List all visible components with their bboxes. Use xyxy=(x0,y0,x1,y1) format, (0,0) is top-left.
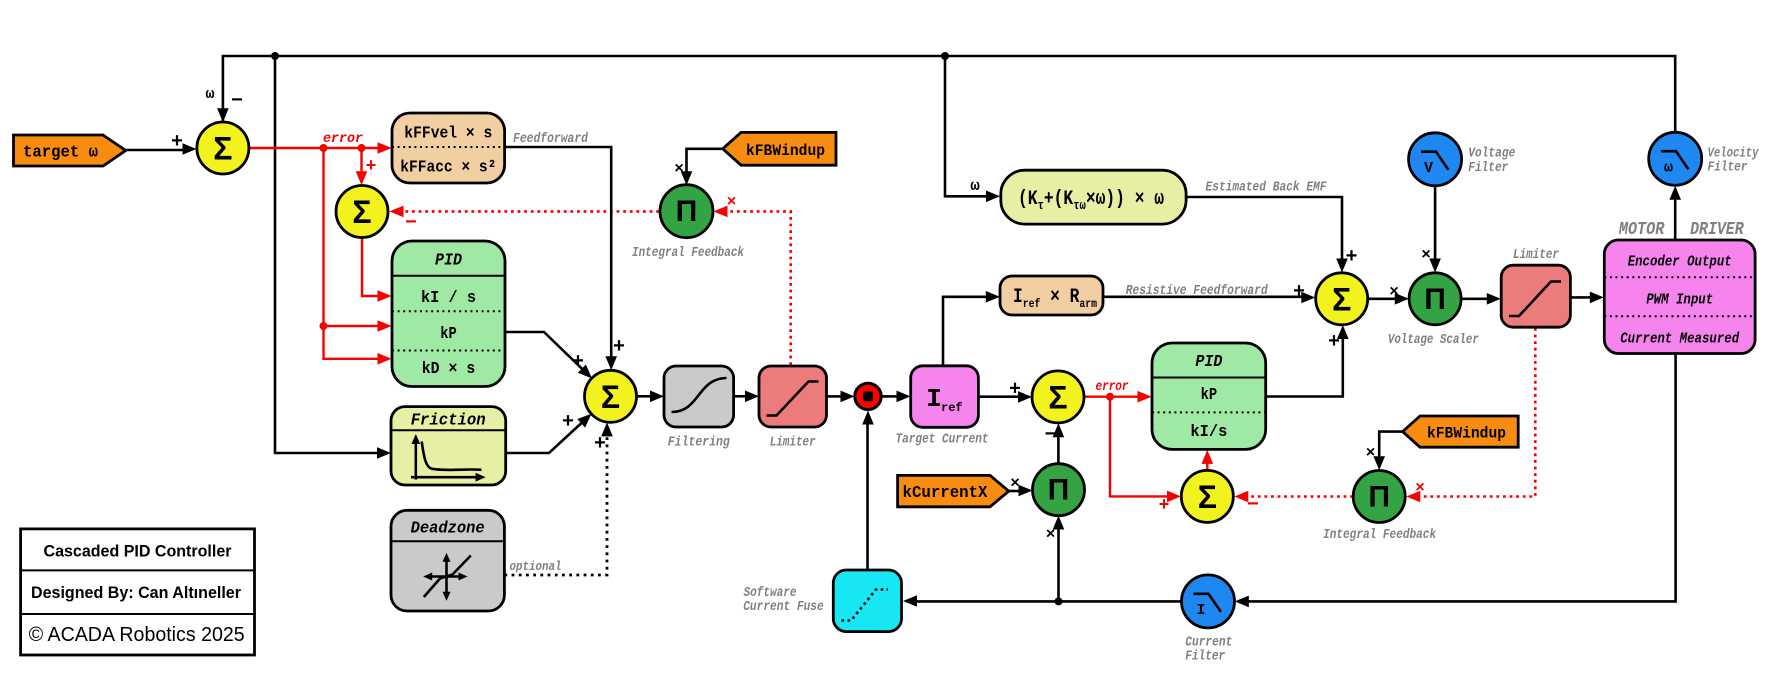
wire kFBWindup to P1 xyxy=(687,149,723,172)
svg-text:Σ: Σ xyxy=(1198,479,1217,515)
svg-text:kFBWindup: kFBWindup xyxy=(1427,425,1506,443)
svg-text:Limiter: Limiter xyxy=(770,436,816,451)
icon friction curve xyxy=(411,437,480,480)
block filtering xyxy=(664,366,734,427)
svg-text:Π: Π xyxy=(676,195,698,228)
wire node to Iref block xyxy=(881,395,897,398)
svg-text:PID: PID xyxy=(1195,353,1222,372)
filter velocity xyxy=(1649,132,1702,185)
block friction xyxy=(391,407,506,485)
wire filtering to limiter xyxy=(734,395,746,398)
svg-text:+: + xyxy=(1328,331,1340,354)
svg-text:I: I xyxy=(926,384,942,414)
svg-text:Voltage Scaler: Voltage Scaler xyxy=(1388,333,1479,348)
wire limiter to current node xyxy=(827,395,842,398)
wire back emf to S6 xyxy=(1186,197,1342,260)
wire voltage scaler to limiter2 xyxy=(1461,297,1487,300)
svg-text:DRIVER: DRIVER xyxy=(1690,220,1744,240)
wire current error to S5 xyxy=(1110,397,1168,497)
svg-text:kP: kP xyxy=(440,325,457,344)
svg-text:Estimated Back EMF: Estimated Back EMF xyxy=(1206,181,1328,196)
svg-text:Current Fuse: Current Fuse xyxy=(743,600,824,615)
wire current filter to software fuse xyxy=(916,600,1182,603)
node current error junction xyxy=(1106,393,1114,401)
wire limiter windup to P1 (dotted) xyxy=(726,211,791,365)
block PID velocity xyxy=(392,241,505,387)
wire feedback to friction xyxy=(275,56,378,453)
svg-text:kFFacc × s²: kFFacc × s² xyxy=(400,159,496,178)
block feedforward kFFvel kFFacc xyxy=(392,113,505,183)
svg-text:Filtering: Filtering xyxy=(668,436,731,451)
svg-text:−: − xyxy=(231,90,243,113)
block software current fuse xyxy=(833,570,901,632)
filter voltage xyxy=(1409,133,1462,186)
block limiter 1 xyxy=(759,366,827,427)
block resistive feedforward IxR xyxy=(1000,276,1103,315)
svg-text:Friction: Friction xyxy=(411,411,486,430)
wire voltage filter to voltage scaler xyxy=(1434,185,1437,259)
svg-text:ref: ref xyxy=(941,401,963,415)
svg-text:Deadzone: Deadzone xyxy=(411,518,485,537)
block target omega xyxy=(14,135,126,166)
svg-text:+: + xyxy=(1009,379,1021,402)
wire error to summing junction S2 xyxy=(360,148,362,172)
wire software fuse to current node xyxy=(866,424,869,570)
wire S6 to voltage scaler xyxy=(1368,297,1396,300)
svg-text:−: − xyxy=(1044,424,1056,447)
wire integral feedback to S2 (dotted) xyxy=(402,210,659,213)
svg-text:+: + xyxy=(1159,496,1170,516)
svg-text:kP: kP xyxy=(1201,386,1218,405)
block motor driver xyxy=(1604,240,1755,354)
block limiter 2 xyxy=(1501,265,1570,327)
svg-text:×: × xyxy=(1010,475,1020,493)
block target current Iref xyxy=(911,366,979,428)
svg-text:MOTOR: MOTOR xyxy=(1618,220,1664,240)
block deadzone xyxy=(391,510,504,611)
svg-text:Limiter: Limiter xyxy=(1513,248,1559,263)
svg-text:Σ: Σ xyxy=(1048,379,1067,415)
wire P2 to S4 minus input xyxy=(1057,437,1060,464)
block PID current xyxy=(1152,343,1266,449)
svg-text:Π: Π xyxy=(1048,474,1070,507)
summing junction S2 xyxy=(336,186,388,238)
svg-text:Σ: Σ xyxy=(601,379,620,415)
multiplier P3 integral feedback 2 xyxy=(1353,471,1405,523)
wire deadzone optional to S3 (dotted) xyxy=(504,436,607,575)
svg-text:PID: PID xyxy=(435,251,462,270)
svg-text:kI/s: kI/s xyxy=(1190,423,1227,442)
svg-text:Voltage: Voltage xyxy=(1468,147,1515,162)
summing junction S1 xyxy=(197,122,249,174)
svg-text:target ω: target ω xyxy=(23,144,98,163)
multiplier P2 current scaler xyxy=(1033,464,1085,516)
summing junction S5 xyxy=(1181,470,1233,522)
node measured current junction xyxy=(1055,597,1063,605)
summing junction S6 xyxy=(1316,273,1368,325)
svg-text:Integral Feedback: Integral Feedback xyxy=(1323,528,1437,543)
svg-text:I: I xyxy=(1196,602,1205,619)
svg-text:Π: Π xyxy=(1424,283,1446,316)
wire PID1 kP output to S3 xyxy=(505,332,588,375)
svg-text:error: error xyxy=(1096,380,1129,395)
svg-text:×: × xyxy=(1046,526,1056,544)
svg-text:PWM Input: PWM Input xyxy=(1646,291,1713,308)
wire current measured to current filter xyxy=(1248,354,1676,602)
node error junction 1 xyxy=(320,144,328,152)
svg-text:Σ: Σ xyxy=(213,131,232,167)
wire kFBWindup2 to P3 xyxy=(1379,432,1402,457)
svg-text:Resistive Feedforward: Resistive Feedforward xyxy=(1126,284,1269,299)
svg-text:Velocity: Velocity xyxy=(1708,147,1760,162)
node top wire junction x945 xyxy=(941,52,949,60)
svg-text:Software: Software xyxy=(744,586,797,601)
svg-text:Current Measured: Current Measured xyxy=(1620,330,1740,347)
multiplier P4 voltage scaler xyxy=(1409,273,1461,325)
wire S3 to filtering xyxy=(637,395,652,398)
svg-text:+: + xyxy=(171,131,183,154)
wire measured current to P2 xyxy=(1057,529,1060,602)
wire limiter2 to motor pwm input xyxy=(1570,296,1590,299)
svg-text:Filter: Filter xyxy=(1185,649,1225,664)
svg-text:Designed By: Can Altıneller: Designed By: Can Altıneller xyxy=(31,583,241,602)
summing junction S3 xyxy=(585,370,637,422)
svg-text:×: × xyxy=(727,193,737,211)
multiplier P1 integral feedback xyxy=(660,185,713,238)
svg-text:Π: Π xyxy=(1368,481,1390,514)
svg-text:+: + xyxy=(613,336,625,359)
node top wire junction x275 xyxy=(271,52,279,60)
wire Iref block to S4 xyxy=(978,395,1019,398)
wire target to summing junction S1 xyxy=(126,149,183,152)
icon deadzone xyxy=(427,556,464,598)
svg-text:ω: ω xyxy=(205,86,214,103)
svg-text:+: + xyxy=(562,411,574,434)
wire error from S1 xyxy=(249,147,378,149)
svg-text:×: × xyxy=(1415,479,1425,497)
wire velocity feedback top xyxy=(223,56,1675,133)
svg-text:×: × xyxy=(1389,283,1399,301)
svg-text:kFBWindup: kFBWindup xyxy=(746,142,825,160)
wire S5 to PID2 integrator xyxy=(1206,463,1208,470)
summing junction S4 xyxy=(1032,371,1084,423)
wire feedforward to S3 xyxy=(505,147,612,357)
block kCurrentX xyxy=(898,475,1009,506)
wire feedback to back-emf block xyxy=(945,56,987,196)
wire current error from S4 xyxy=(1084,396,1139,398)
filter current xyxy=(1182,575,1235,628)
svg-text:−: − xyxy=(405,212,417,235)
wire error to PID kP and kD xyxy=(324,148,379,359)
legend box xyxy=(21,529,255,655)
svg-text:+: + xyxy=(1345,246,1357,269)
node error junction kP xyxy=(320,322,328,330)
svg-text:kI / s: kI / s xyxy=(421,289,476,308)
block estimated back emf xyxy=(1001,170,1186,224)
svg-text:×: × xyxy=(1421,246,1431,264)
svg-text:+: + xyxy=(366,157,377,177)
svg-text:© ACADA Robotics 2025: © ACADA Robotics 2025 xyxy=(29,623,245,646)
svg-text:ω: ω xyxy=(970,177,980,195)
block kFBWindup 2 xyxy=(1403,416,1519,447)
svg-text:Feedforward: Feedforward xyxy=(513,132,589,147)
wire encoder output to velocity filter xyxy=(1674,199,1677,240)
wire Iref to resistive feedforward block xyxy=(943,297,987,366)
svg-text:Integral Feedback: Integral Feedback xyxy=(632,246,745,261)
svg-text:ω: ω xyxy=(1664,160,1673,177)
svg-text:−: − xyxy=(1247,494,1259,517)
wire resistive feedforward to S6 xyxy=(1103,295,1302,298)
node current interrupt xyxy=(855,383,881,409)
node error junction 2 xyxy=(358,144,366,152)
svg-text:×: × xyxy=(1366,444,1376,462)
wire kCurrentX to P2 xyxy=(1009,490,1020,493)
wire PID2 output to S6 xyxy=(1266,338,1343,396)
wire S2 to PID kI row xyxy=(362,238,378,296)
svg-text:V: V xyxy=(1424,160,1433,177)
svg-text:Σ: Σ xyxy=(1332,281,1351,317)
svg-text:Target Current: Target Current xyxy=(896,433,989,448)
svg-text:Cascaded PID Controller: Cascaded PID Controller xyxy=(44,541,232,560)
svg-text:+: + xyxy=(572,351,584,374)
wire friction output to S3 xyxy=(506,417,588,453)
svg-text:Filter: Filter xyxy=(1468,161,1508,176)
svg-text:Σ: Σ xyxy=(352,194,371,230)
svg-text:kD × s: kD × s xyxy=(422,360,476,379)
svg-text:error: error xyxy=(323,131,364,147)
svg-text:+: + xyxy=(1293,281,1305,304)
svg-text:kCurrentX: kCurrentX xyxy=(903,484,989,503)
wire integral feedback 2 to S5 (dotted) xyxy=(1247,495,1353,498)
svg-text:Encoder Output: Encoder Output xyxy=(1628,253,1732,270)
svg-text:optional: optional xyxy=(510,559,562,574)
svg-text:Filter: Filter xyxy=(1708,161,1748,176)
block kFBWindup 1 xyxy=(723,132,836,165)
svg-text:×: × xyxy=(674,160,684,178)
svg-text:kFFvel × s: kFFvel × s xyxy=(404,125,492,144)
wire limiter2 windup to P3 (dotted) xyxy=(1419,328,1535,497)
svg-text:+: + xyxy=(594,433,606,456)
